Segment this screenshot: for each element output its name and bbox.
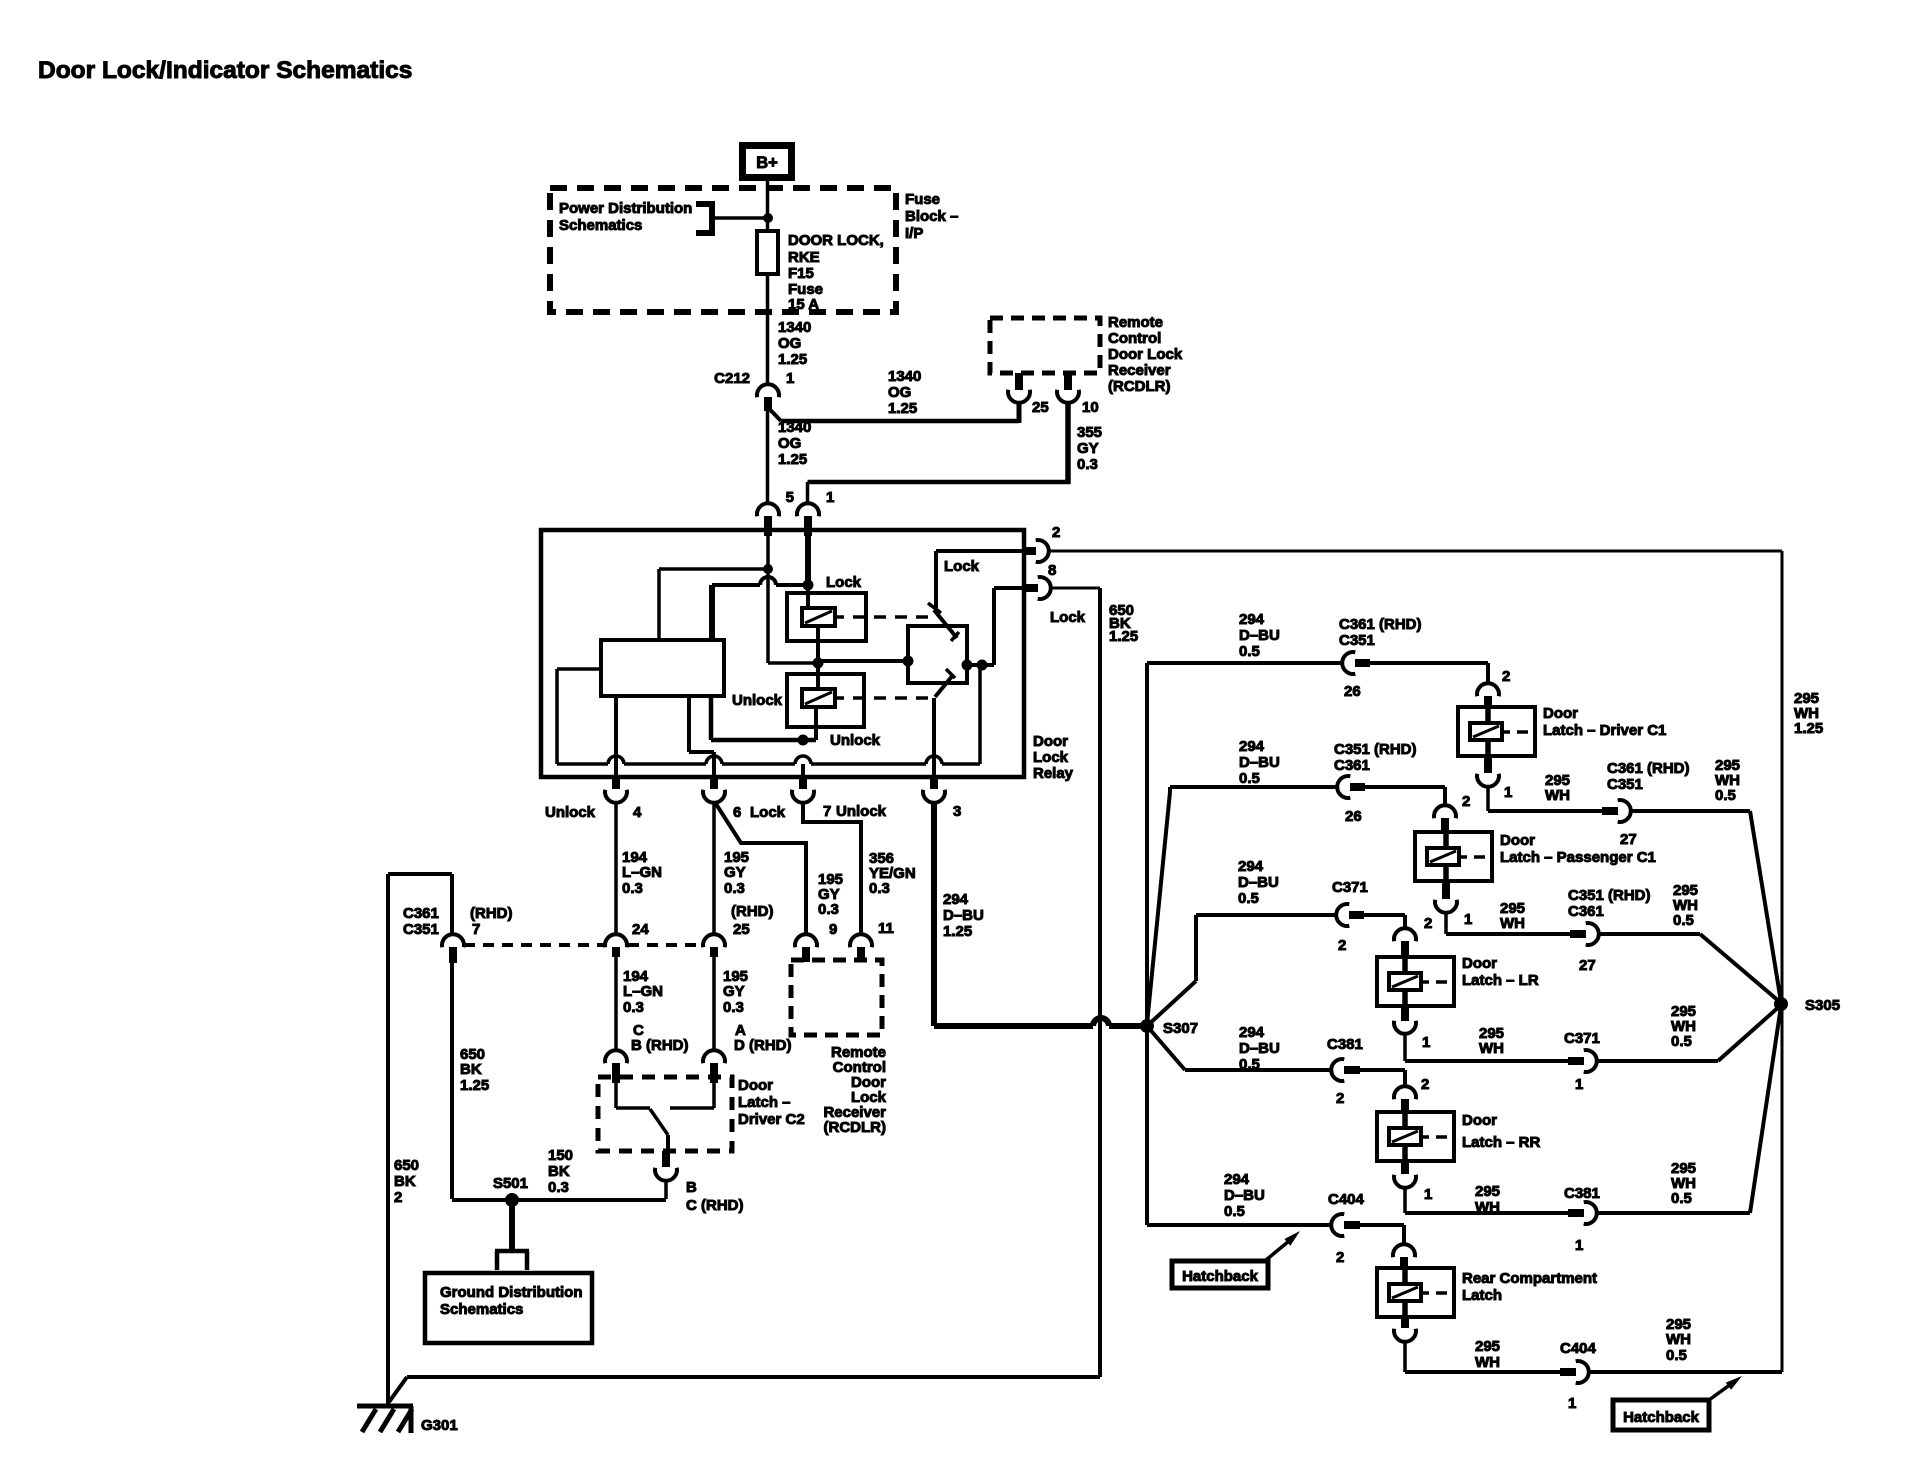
svg-text:C351: C351 <box>403 921 439 938</box>
svg-text:Schematics: Schematics <box>559 217 642 234</box>
svg-text:0.5: 0.5 <box>1673 912 1694 929</box>
svg-text:Unlock: Unlock <box>545 804 596 821</box>
svg-text:Block –: Block – <box>905 208 958 225</box>
svg-text:Door: Door <box>1500 832 1535 849</box>
svg-text:Door: Door <box>1462 1112 1497 1129</box>
svg-text:Driver C2: Driver C2 <box>738 1111 805 1128</box>
svg-text:1.25: 1.25 <box>888 400 917 417</box>
svg-text:294: 294 <box>1239 1024 1265 1041</box>
svg-text:1.25: 1.25 <box>1109 628 1138 645</box>
svg-text:9: 9 <box>829 921 837 938</box>
svg-text:25: 25 <box>1032 399 1049 416</box>
svg-text:1: 1 <box>1422 1034 1430 1051</box>
svg-text:2: 2 <box>1421 1076 1429 1093</box>
svg-text:Schematics: Schematics <box>440 1301 523 1318</box>
svg-text:1: 1 <box>1464 911 1472 928</box>
svg-text:0.5: 0.5 <box>1239 1056 1260 1073</box>
svg-text:1.25: 1.25 <box>1794 720 1823 737</box>
svg-text:0.5: 0.5 <box>1239 770 1260 787</box>
svg-text:2: 2 <box>1462 793 1470 810</box>
svg-text:1: 1 <box>1424 1186 1432 1203</box>
svg-text:294: 294 <box>1239 738 1265 755</box>
svg-text:0.3: 0.3 <box>548 1179 569 1196</box>
svg-text:2: 2 <box>1424 915 1432 932</box>
svg-text:15 A: 15 A <box>788 296 819 313</box>
svg-text:C371: C371 <box>1332 879 1368 896</box>
svg-text:1340: 1340 <box>778 419 811 436</box>
svg-text:OG: OG <box>888 384 911 401</box>
svg-text:C351 (RHD): C351 (RHD) <box>1568 887 1651 904</box>
svg-text:OG: OG <box>778 335 801 352</box>
svg-text:3: 3 <box>953 803 961 820</box>
svg-text:294: 294 <box>1238 858 1264 875</box>
svg-text:2: 2 <box>1052 524 1060 541</box>
svg-text:D–BU: D–BU <box>943 907 984 924</box>
svg-text:295: 295 <box>1475 1183 1500 1200</box>
svg-text:C361: C361 <box>1334 757 1370 774</box>
svg-text:355: 355 <box>1077 424 1102 441</box>
svg-text:D–BU: D–BU <box>1239 754 1280 771</box>
svg-text:0.5: 0.5 <box>1671 1190 1692 1207</box>
svg-text:0.5: 0.5 <box>1239 643 1260 660</box>
svg-text:1.25: 1.25 <box>460 1077 489 1094</box>
svg-text:C381: C381 <box>1327 1036 1363 1053</box>
svg-text:Door: Door <box>1462 955 1497 972</box>
svg-text:C361: C361 <box>1568 903 1604 920</box>
svg-text:8: 8 <box>1048 562 1056 579</box>
svg-text:150: 150 <box>548 1147 573 1164</box>
svg-text:Lock: Lock <box>1050 609 1086 626</box>
svg-text:Rear Compartment: Rear Compartment <box>1462 1270 1597 1287</box>
svg-text:0.5: 0.5 <box>1715 787 1736 804</box>
svg-text:WH: WH <box>1479 1040 1504 1057</box>
svg-text:C404: C404 <box>1560 1340 1597 1357</box>
svg-text:Hatchback: Hatchback <box>1623 1409 1700 1426</box>
svg-text:1340: 1340 <box>888 368 921 385</box>
svg-text:BK: BK <box>460 1061 482 1078</box>
svg-text:Door Lock: Door Lock <box>1108 346 1183 363</box>
svg-text:(RHD): (RHD) <box>731 903 774 920</box>
svg-text:0.5: 0.5 <box>1224 1203 1245 1220</box>
svg-text:26: 26 <box>1344 683 1361 700</box>
svg-text:0.3: 0.3 <box>724 880 745 897</box>
svg-text:Lock: Lock <box>826 574 862 591</box>
svg-text:D–BU: D–BU <box>1224 1187 1265 1204</box>
svg-text:D–BU: D–BU <box>1238 874 1279 891</box>
svg-text:24: 24 <box>632 921 649 938</box>
svg-text:WH: WH <box>1475 1199 1500 1216</box>
svg-text:WH: WH <box>1545 787 1570 804</box>
svg-text:4: 4 <box>633 804 642 821</box>
svg-text:5: 5 <box>786 489 794 506</box>
svg-text:BK: BK <box>548 1163 570 1180</box>
svg-text:6: 6 <box>733 804 741 821</box>
svg-text:C351 (RHD): C351 (RHD) <box>1334 741 1417 758</box>
svg-text:F15: F15 <box>788 265 814 282</box>
svg-text:295: 295 <box>1475 1338 1500 1355</box>
svg-text:Latch – RR: Latch – RR <box>1462 1134 1541 1151</box>
svg-text:1: 1 <box>786 370 794 387</box>
svg-text:2: 2 <box>1502 668 1510 685</box>
svg-text:Relay: Relay <box>1033 765 1074 782</box>
svg-text:1: 1 <box>1568 1395 1576 1412</box>
svg-text:GY: GY <box>1077 440 1099 457</box>
svg-text:10: 10 <box>1082 399 1099 416</box>
svg-text:C351: C351 <box>1339 632 1375 649</box>
svg-text:Latch –: Latch – <box>738 1094 791 1111</box>
svg-text:RKE: RKE <box>788 249 820 266</box>
svg-text:27: 27 <box>1579 957 1596 974</box>
svg-text:B: B <box>686 1179 697 1196</box>
svg-text:1: 1 <box>1575 1076 1583 1093</box>
svg-text:Fuse: Fuse <box>905 191 940 208</box>
svg-text:B (RHD): B (RHD) <box>631 1037 689 1054</box>
svg-text:BK: BK <box>394 1173 416 1190</box>
svg-text:WH: WH <box>1475 1354 1500 1371</box>
svg-text:Power Distribution: Power Distribution <box>559 200 692 217</box>
svg-text:G301: G301 <box>421 1417 458 1434</box>
svg-text:WH: WH <box>1500 915 1525 932</box>
svg-text:Ground Distribution: Ground Distribution <box>440 1284 582 1301</box>
svg-text:25: 25 <box>733 921 750 938</box>
svg-text:C361 (RHD): C361 (RHD) <box>1339 616 1422 633</box>
svg-text:1.25: 1.25 <box>778 451 807 468</box>
svg-text:L–GN: L–GN <box>623 983 663 1000</box>
svg-text:(RCDLR): (RCDLR) <box>1108 378 1170 395</box>
svg-text:Receiver: Receiver <box>1108 362 1171 379</box>
svg-text:WH: WH <box>1666 1331 1691 1348</box>
svg-text:650: 650 <box>394 1157 419 1174</box>
svg-text:0.3: 0.3 <box>622 880 643 897</box>
svg-text:Latch – LR: Latch – LR <box>1462 972 1539 989</box>
svg-text:Hatchback: Hatchback <box>1182 1268 1259 1285</box>
svg-text:Latch – Driver C1: Latch – Driver C1 <box>1543 722 1666 739</box>
svg-text:Control: Control <box>1108 330 1161 347</box>
svg-text:2: 2 <box>1338 937 1346 954</box>
svg-text:294: 294 <box>1239 611 1265 628</box>
svg-text:0.3: 0.3 <box>723 999 744 1016</box>
svg-text:Door: Door <box>1033 733 1068 750</box>
svg-text:1: 1 <box>1504 784 1512 801</box>
svg-text:1.25: 1.25 <box>943 923 972 940</box>
svg-text:0.5: 0.5 <box>1238 890 1259 907</box>
svg-text:1340: 1340 <box>778 319 811 336</box>
svg-text:Remote: Remote <box>1108 314 1163 331</box>
svg-text:0.5: 0.5 <box>1671 1033 1692 1050</box>
svg-text:C404: C404 <box>1328 1191 1365 1208</box>
svg-text:7: 7 <box>823 803 831 820</box>
svg-text:294: 294 <box>1224 1171 1250 1188</box>
svg-text:0.3: 0.3 <box>623 999 644 1016</box>
svg-text:C361 (RHD): C361 (RHD) <box>1607 760 1690 777</box>
svg-text:B+: B+ <box>756 154 778 172</box>
svg-text:D (RHD): D (RHD) <box>734 1037 792 1054</box>
svg-text:Latch – Passenger C1: Latch – Passenger C1 <box>1500 849 1656 866</box>
svg-text:Unlock: Unlock <box>732 692 783 709</box>
svg-text:DOOR LOCK,: DOOR LOCK, <box>788 232 884 249</box>
svg-text:Unlock: Unlock <box>830 732 881 749</box>
svg-text:0.5: 0.5 <box>1666 1347 1687 1364</box>
svg-text:Door: Door <box>1543 705 1578 722</box>
svg-text:2: 2 <box>1336 1090 1344 1107</box>
svg-text:C212: C212 <box>714 370 750 387</box>
svg-text:1: 1 <box>1575 1237 1583 1254</box>
svg-text:C371: C371 <box>1564 1030 1600 1047</box>
svg-text:D–BU: D–BU <box>1239 627 1280 644</box>
svg-text:C381: C381 <box>1564 1185 1600 1202</box>
svg-text:GY: GY <box>724 864 746 881</box>
svg-text:Door: Door <box>738 1077 773 1094</box>
svg-text:OG: OG <box>778 435 801 452</box>
svg-text:Lock: Lock <box>750 804 786 821</box>
svg-text:11: 11 <box>878 920 894 937</box>
svg-text:0.3: 0.3 <box>1077 456 1098 473</box>
svg-text:S501: S501 <box>493 1175 528 1192</box>
svg-text:Lock: Lock <box>944 558 980 575</box>
svg-text:2: 2 <box>394 1189 402 1206</box>
svg-text:1: 1 <box>826 489 834 506</box>
svg-text:Unlock: Unlock <box>836 803 887 820</box>
svg-text:1.25: 1.25 <box>778 351 807 368</box>
svg-text:2: 2 <box>1336 1249 1344 1266</box>
svg-text:0.3: 0.3 <box>869 880 890 897</box>
svg-text:(RHD): (RHD) <box>470 905 513 922</box>
svg-text:L–GN: L–GN <box>622 864 662 881</box>
svg-text:Lock: Lock <box>1033 749 1069 766</box>
svg-text:Door Lock/Indicator Schematics: Door Lock/Indicator Schematics <box>38 57 412 84</box>
svg-text:7: 7 <box>472 921 480 938</box>
svg-text:GY: GY <box>723 983 745 1000</box>
svg-text:0.3: 0.3 <box>818 901 839 918</box>
svg-text:(RCDLR): (RCDLR) <box>824 1119 886 1136</box>
svg-text:Latch: Latch <box>1462 1287 1502 1304</box>
svg-text:C351: C351 <box>1607 776 1643 793</box>
svg-text:26: 26 <box>1345 808 1362 825</box>
svg-text:27: 27 <box>1620 831 1637 848</box>
svg-text:S305: S305 <box>1805 997 1840 1014</box>
svg-text:S307: S307 <box>1163 1020 1198 1037</box>
svg-text:D–BU: D–BU <box>1239 1040 1280 1057</box>
svg-text:C361: C361 <box>403 905 439 922</box>
svg-text:I/P: I/P <box>905 225 923 242</box>
svg-text:294: 294 <box>943 891 969 908</box>
svg-text:C (RHD): C (RHD) <box>686 1197 744 1214</box>
